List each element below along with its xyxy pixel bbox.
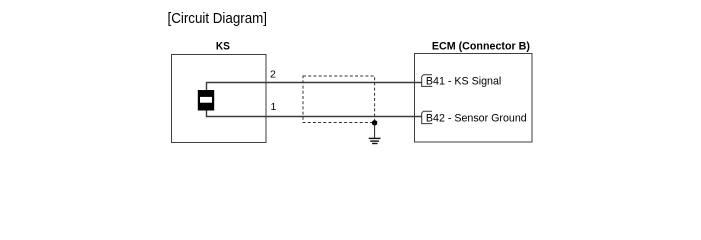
shield (dashed box): [303, 76, 375, 123]
svg-text:1: 1: [271, 101, 277, 113]
svg-text:[Circuit Diagram]: [Circuit Diagram]: [168, 11, 268, 27]
terminal B41 bracket: [422, 75, 433, 87]
ground wire stem: [374, 123, 376, 138]
knock sensor KS piezo element body: [198, 90, 214, 111]
svg-text:B42 - Sensor Ground: B42 - Sensor Ground: [426, 113, 527, 125]
svg-text:B41 - KS Signal: B41 - KS Signal: [426, 75, 501, 87]
terminal B42 bracket: [422, 111, 433, 123]
ECM connector box: [415, 54, 533, 143]
svg-text:KS: KS: [216, 40, 230, 52]
svg-text:2: 2: [270, 69, 276, 81]
ground symbol: [369, 138, 381, 143]
wire pin2 top: knock sensor to B41: [207, 83, 422, 91]
junction dot on shield: [372, 120, 377, 125]
wire pin1 bottom: knock sensor to B42: [207, 111, 422, 117]
svg-text:ECM (Connector B): ECM (Connector B): [432, 41, 530, 53]
KS component box: [172, 55, 267, 143]
